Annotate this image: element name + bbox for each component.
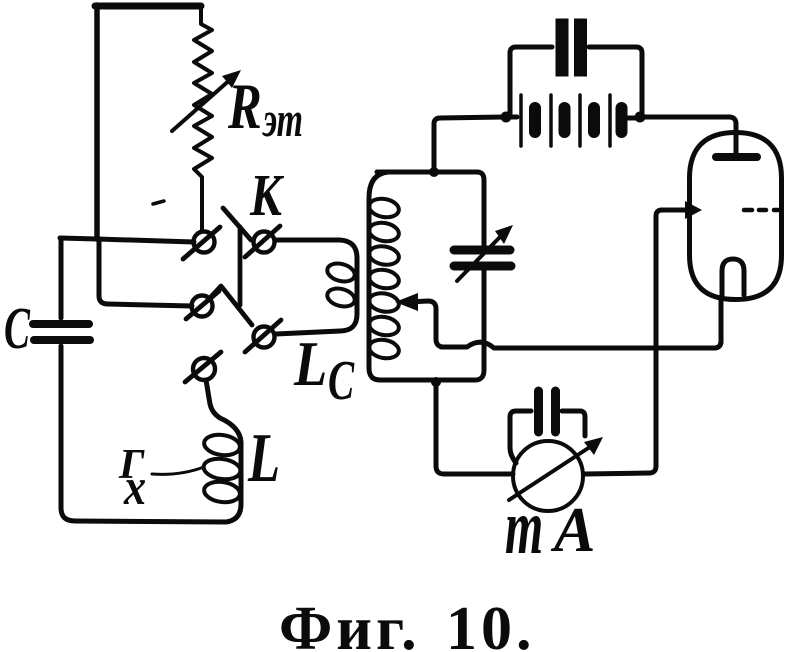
svg-text:L: L [247, 420, 280, 497]
svg-text:эт: эт [262, 91, 303, 147]
svg-text:К: К [249, 162, 284, 228]
svg-text:10.: 10. [446, 595, 536, 652]
svg-text:A: A [550, 494, 595, 565]
svg-text:х: х [123, 459, 146, 516]
svg-text:R: R [227, 70, 262, 142]
svg-text:C: C [4, 295, 30, 361]
svg-text:L: L [293, 328, 327, 399]
svg-text:m: m [505, 485, 543, 571]
svg-text:Фиг.: Фиг. [279, 595, 421, 652]
svg-text:C: C [328, 350, 355, 411]
